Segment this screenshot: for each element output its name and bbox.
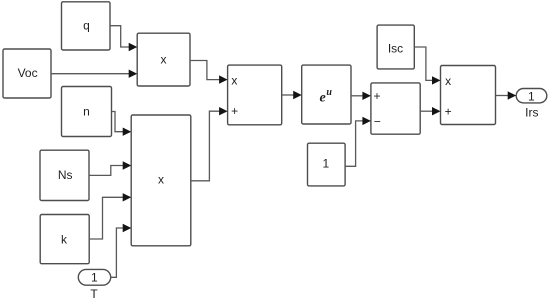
- svg-text:1: 1: [528, 90, 535, 104]
- constant block n: [62, 87, 112, 137]
- wire D1 to e^u: [282, 91, 302, 99]
- wire k to P2: [89, 193, 131, 239]
- sum block S1 (+ -): [371, 83, 420, 134]
- constant block Voc: [3, 49, 51, 98]
- svg-text:1: 1: [322, 156, 329, 170]
- wire constant 1 to S1: [345, 117, 371, 167]
- svg-text:Irs: Irs: [525, 105, 538, 119]
- constant block k: [40, 215, 89, 264]
- wire S1 to D2: [420, 107, 440, 115]
- svg-text:n: n: [83, 105, 90, 119]
- wire q to P1: [110, 26, 137, 52]
- wire P2 to D1: [191, 107, 228, 181]
- wire Ns to P2: [89, 161, 131, 175]
- wire Isc to D2: [414, 47, 440, 85]
- svg-text:1: 1: [91, 271, 98, 285]
- divide block D1: [228, 65, 282, 125]
- wire Voc to P1: [51, 70, 137, 78]
- svg-text:x: x: [161, 53, 167, 67]
- svg-text:x: x: [158, 173, 164, 187]
- svg-text:−: −: [374, 115, 381, 129]
- svg-text:Isc: Isc: [388, 42, 403, 56]
- wire D2 to outport: [496, 91, 517, 99]
- svg-text:q: q: [83, 18, 90, 32]
- product block P1 (q*Voc): [137, 33, 190, 86]
- outport 1 (Irs): [516, 89, 547, 120]
- math function block e^u: [302, 65, 351, 124]
- wire n to P2: [112, 112, 132, 136]
- constant block Ns: [40, 150, 89, 200]
- svg-text:x: x: [445, 74, 451, 88]
- svg-text:e: e: [320, 91, 326, 106]
- svg-text:T: T: [90, 287, 98, 301]
- constant block q: [62, 2, 111, 50]
- svg-text:k: k: [61, 232, 68, 246]
- wire P1 to D1: [190, 61, 228, 84]
- svg-text:+: +: [445, 105, 452, 119]
- svg-text:Ns: Ns: [58, 168, 73, 182]
- wire e^u to S1: [351, 92, 371, 100]
- svg-text:+: +: [231, 104, 238, 118]
- svg-text:Voc: Voc: [18, 66, 38, 80]
- svg-text:x: x: [231, 73, 237, 87]
- divide block D2 (Isc / (e^u-1)): [441, 66, 496, 125]
- svg-text:u: u: [326, 87, 332, 98]
- constant block 1: [308, 143, 346, 186]
- inport 1 (T): [78, 269, 110, 301]
- svg-text:+: +: [373, 89, 380, 103]
- wire inport T to P2: [111, 224, 132, 277]
- constant block Isc: [377, 25, 414, 69]
- product block P2 (n*Ns*k*T): [131, 115, 191, 246]
